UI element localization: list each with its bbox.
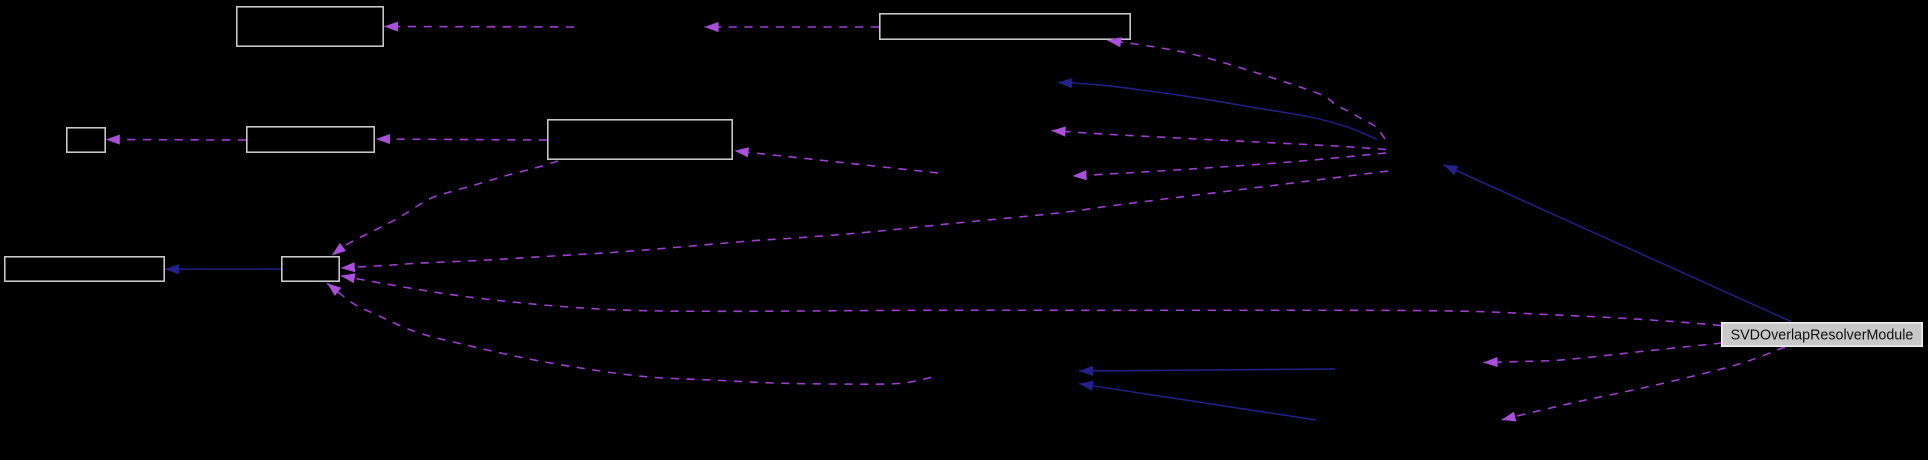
edge SVDOverlapResolverModule to I7 [1484, 343, 1723, 363]
edge hub to node H right edge [341, 171, 1388, 268]
node H [282, 257, 339, 281]
node A [237, 7, 383, 46]
node E [880, 14, 1130, 39]
edge hub to I4 [1052, 131, 1387, 150]
edge SVDOverlapResolverModule to node H [341, 276, 1721, 326]
edge node E to node D [705, 26, 880, 28]
edge I3 to node F [735, 151, 939, 173]
edge I1 to node A [384, 26, 574, 29]
edge node C to node B [106, 139, 246, 142]
node C [247, 127, 374, 152]
svg-text:SVDOverlapResolverModule: SVDOverlapResolverModule [1731, 327, 1914, 343]
node SVDOverlapResolverModule [1722, 323, 1922, 346]
edge SVDOverlapResolverModule to hub [1444, 165, 1792, 322]
edge node H to node G [165, 268, 281, 270]
edge I10 to I5b [1079, 369, 1335, 371]
edge hub to node E [1107, 40, 1385, 139]
edge hub to I9 [1058, 82, 1377, 139]
edge node F to node H top corner [332, 161, 558, 255]
node B [67, 128, 105, 152]
node G [5, 257, 164, 281]
edge node F to node C [376, 139, 547, 140]
edge I6 to node H bottom corner [327, 283, 931, 384]
edge hub to I5 [1073, 153, 1387, 176]
edge I11 to I5c [1079, 384, 1316, 420]
edge SVDOverlapResolverModule to I8 [1502, 347, 1786, 420]
node F [548, 120, 732, 159]
